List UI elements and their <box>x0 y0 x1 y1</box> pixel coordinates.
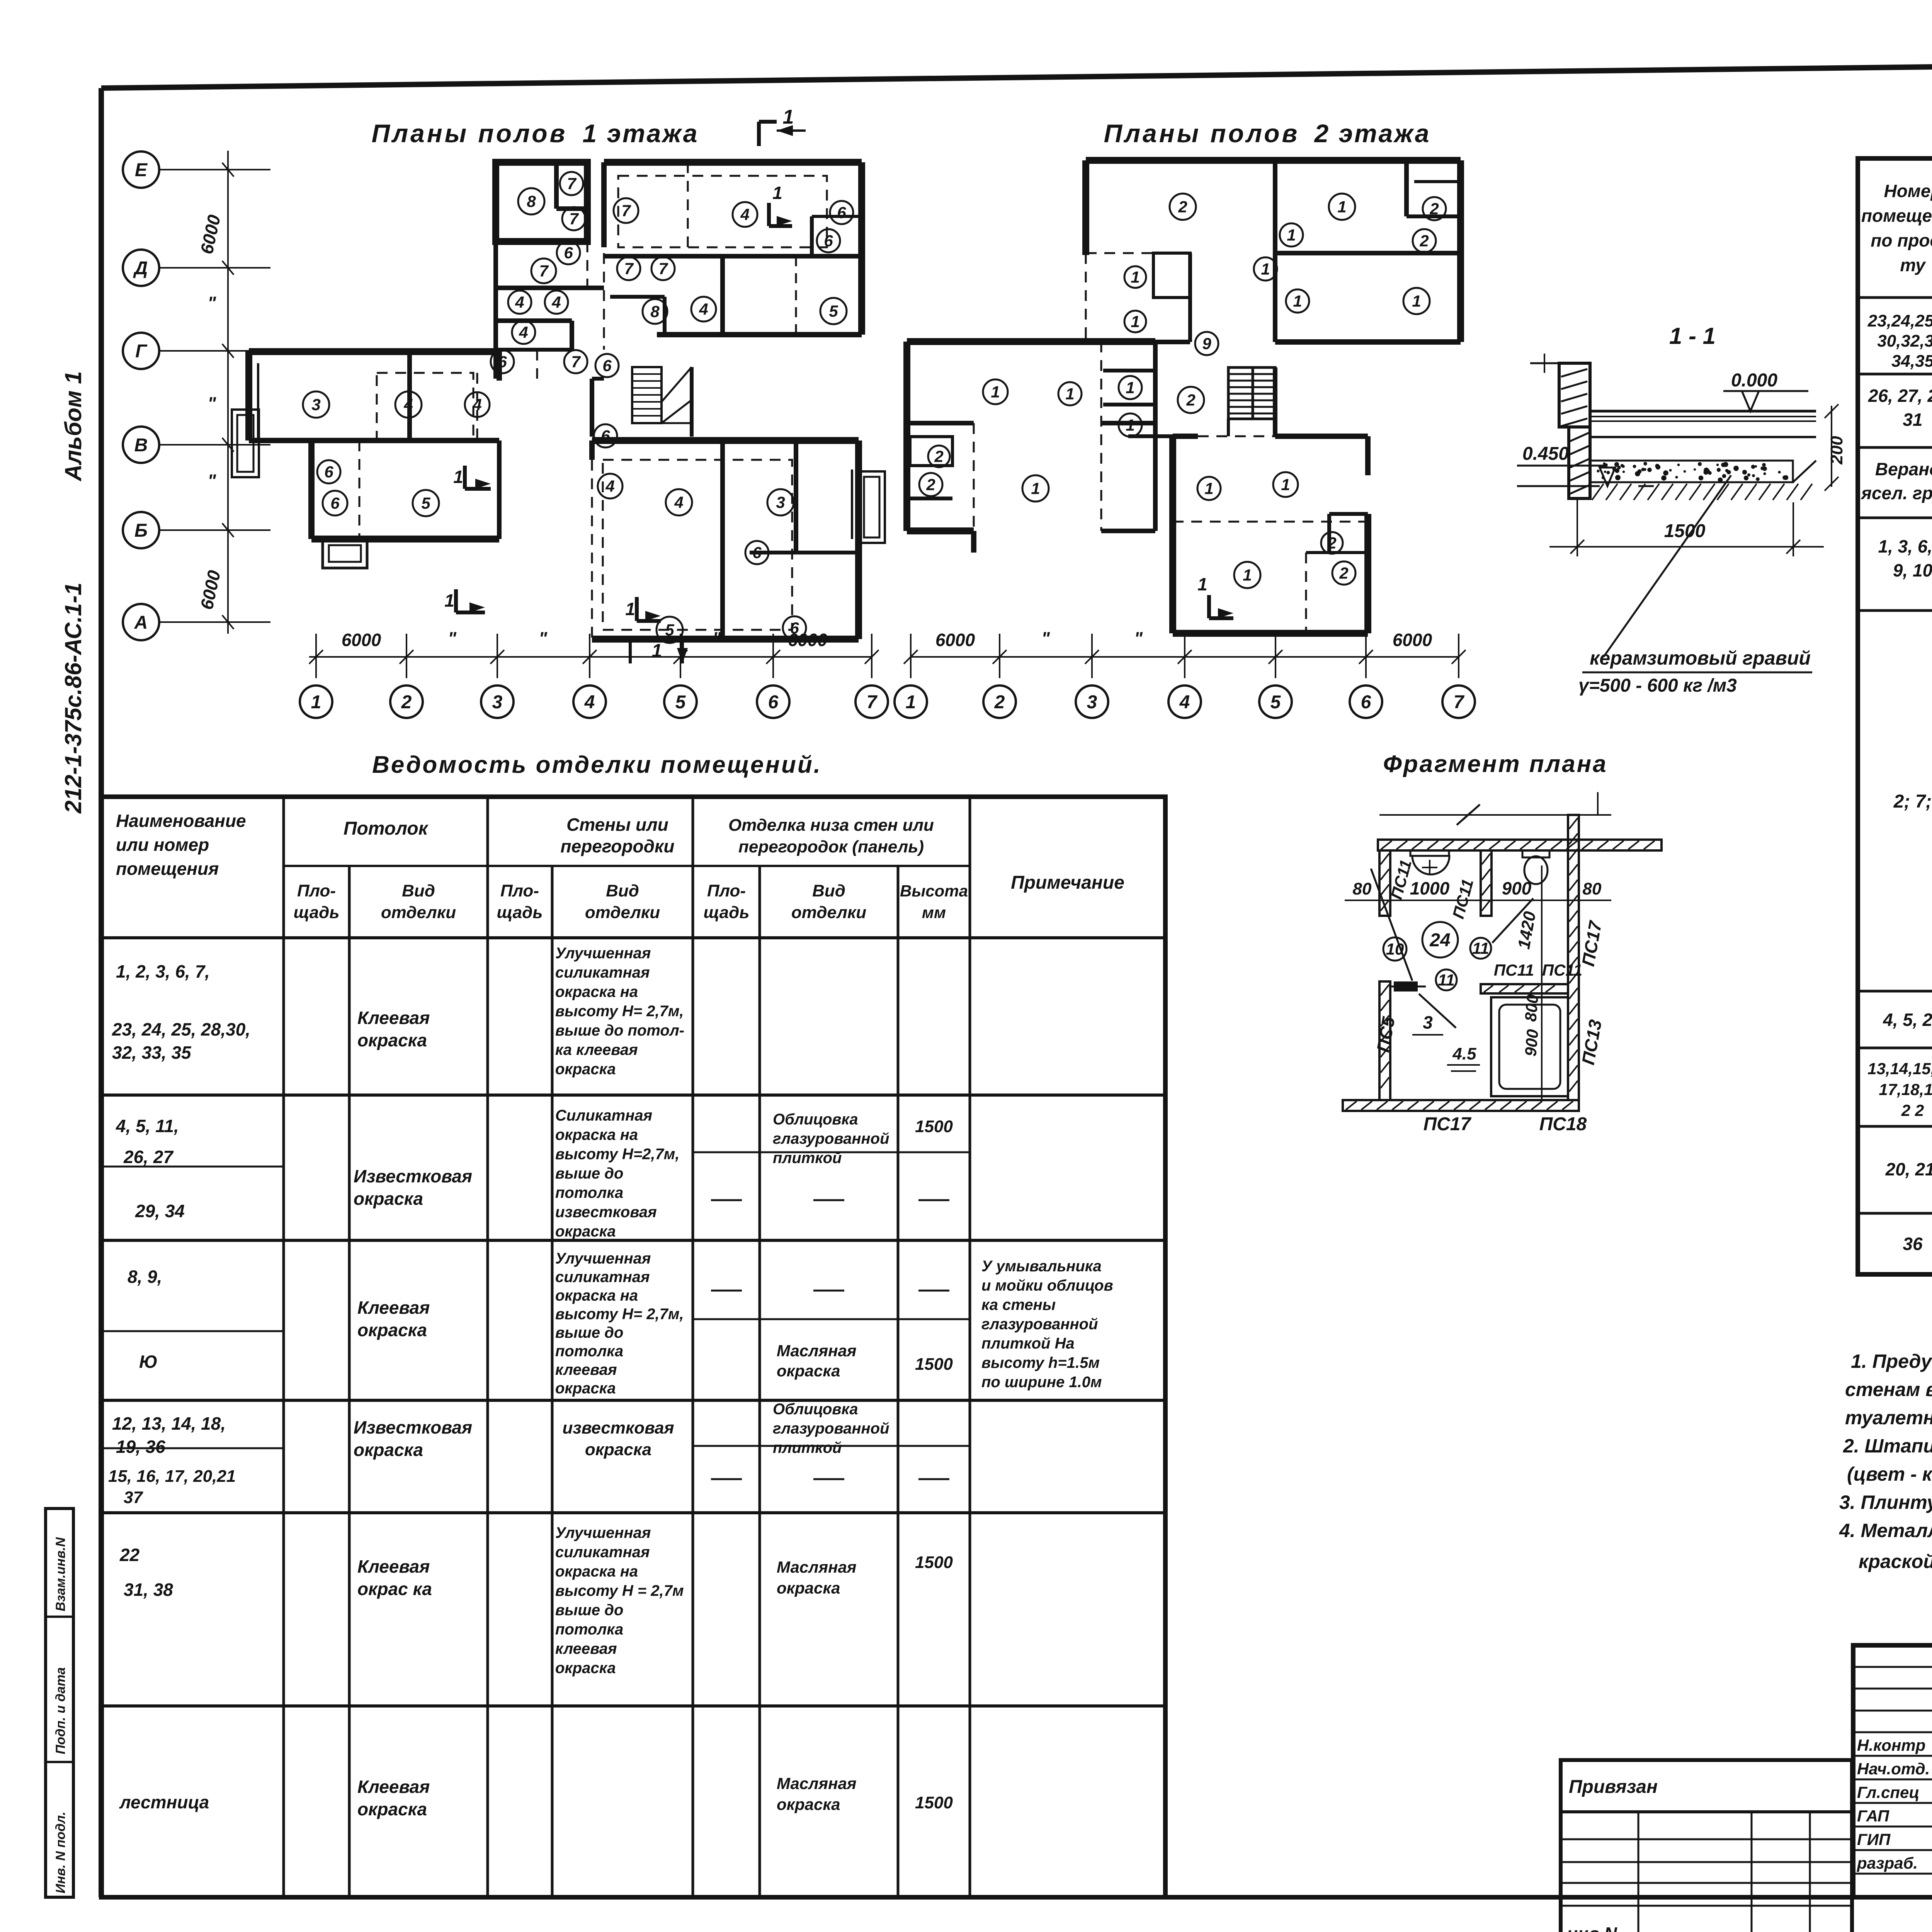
svg-text:У умывальника: У умывальника <box>981 1258 1102 1275</box>
svg-text:900: 900 <box>1521 1029 1542 1057</box>
svg-text:окрас ка: окрас ка <box>357 1579 432 1599</box>
svg-text:3: 3 <box>776 493 785 512</box>
section 1-1 level mark 0.450 <box>1517 444 1654 486</box>
svg-text:3. Плинтусы окрасить масляно: 3. Плинтусы окрасить масляной краской в … <box>1839 1492 1932 1513</box>
svg-text:ПС17: ПС17 <box>1423 1114 1472 1134</box>
svg-text:7: 7 <box>569 210 579 228</box>
svg-text:1000: 1000 <box>1410 878 1450 898</box>
svg-text:": " <box>207 471 216 491</box>
svg-text:Подп. и дата: Подп. и дата <box>53 1667 68 1754</box>
svg-text:6000: 6000 <box>196 568 224 611</box>
svg-text:Потолок: Потолок <box>344 818 429 839</box>
svg-text:2: 2 <box>401 692 412 713</box>
svg-text:перегородки: перегородки <box>561 836 675 856</box>
svg-text:плиткой: плиткой <box>773 1439 842 1456</box>
svg-text:6000: 6000 <box>935 630 975 650</box>
floor plan 1: connector block C walls <box>496 241 604 379</box>
svg-text:8: 8 <box>650 303 660 321</box>
svg-text:1: 1 <box>1287 226 1296 244</box>
svg-text:26, 27, 2 8,: 26, 27, 2 8, <box>1868 386 1932 406</box>
svg-text:5: 5 <box>1270 692 1281 713</box>
svg-text:4: 4 <box>674 493 683 512</box>
axis row Д <box>123 250 270 286</box>
svg-text:23,24,25,29: 23,24,25,29 <box>1867 311 1932 330</box>
svg-text:6000: 6000 <box>1393 630 1432 650</box>
svg-text:34,35: 34,35 <box>1891 352 1932 371</box>
axis row Е <box>123 151 270 188</box>
svg-text:окраска: окраска <box>354 1189 423 1209</box>
fragment plan top dimension line with break <box>1379 792 1611 825</box>
explication table grid <box>1858 158 1932 1274</box>
svg-text:24: 24 <box>1429 930 1450 951</box>
svg-text:щадь: щадь <box>294 903 340 922</box>
svg-text:4, 5, 22: 4, 5, 22 <box>1883 1010 1932 1030</box>
svg-text:31, 38: 31, 38 <box>124 1580 173 1600</box>
svg-text:ту: ту <box>1900 255 1926 275</box>
svg-text:80: 80 <box>1583 879 1602 898</box>
svg-text:окраска: окраска <box>777 1795 840 1813</box>
svg-text:4: 4 <box>403 396 413 414</box>
svg-text:отделки: отделки <box>381 903 456 922</box>
fragment plan walls hatched <box>1343 815 1662 1111</box>
svg-text:11: 11 <box>1438 971 1455 989</box>
svg-text:помещения: помещения <box>1861 206 1932 226</box>
svg-text:4.5: 4.5 <box>1452 1044 1476 1063</box>
svg-text:0.450: 0.450 <box>1522 444 1569 464</box>
svg-text:(цвет - коричневый): (цвет - коричневый) <box>1847 1463 1932 1485</box>
floor plan 1: wall between stair and wing <box>592 367 692 437</box>
svg-text:2: 2 <box>1186 391 1195 409</box>
left margin vertical doc number 212-1-375c.86-AC.1-1 Album 1 <box>60 371 86 814</box>
floor plan 2: left wing walls <box>907 342 1155 553</box>
svg-text:Веранда: Веранда <box>1875 459 1932 479</box>
svg-text:окраска на: окраска на <box>555 1563 638 1580</box>
svg-text:высоту h=1.5м: высоту h=1.5м <box>981 1354 1100 1371</box>
svg-text:4: 4 <box>519 323 528 342</box>
svg-text:2 этажа: 2 этажа <box>1314 119 1431 148</box>
svg-text:2 2: 2 2 <box>1901 1101 1924 1119</box>
svg-text:А: А <box>134 612 148 633</box>
svg-text:окраска на: окраска на <box>555 1287 638 1304</box>
svg-text:Г: Г <box>135 341 148 362</box>
svg-text:плиткой: плиткой <box>773 1150 842 1167</box>
svg-text:4, 5, 11,: 4, 5, 11, <box>116 1116 179 1136</box>
svg-text:ПС18: ПС18 <box>1539 1114 1587 1134</box>
svg-text:6: 6 <box>752 544 762 562</box>
svg-text:плиткой На: плиткой На <box>981 1335 1075 1352</box>
fragment plan door leaf <box>1390 981 1426 992</box>
svg-text:": " <box>713 628 721 648</box>
floor plan 2 section mark 1 <box>1197 574 1233 618</box>
svg-text:γ=500 - 600 кг /м3: γ=500 - 600 кг /м3 <box>1578 675 1737 696</box>
explication table header texts <box>1861 181 1932 287</box>
svg-text:отделки: отделки <box>791 903 866 922</box>
svg-text:6: 6 <box>768 692 779 713</box>
svg-text:6: 6 <box>330 494 340 512</box>
svg-text:выше до: выше до <box>555 1324 623 1341</box>
svg-text:1 этажа: 1 этажа <box>583 119 699 148</box>
svg-text:ка клеевая: ка клеевая <box>555 1041 638 1058</box>
svg-text:инв.N.: инв.N. <box>1567 1923 1622 1932</box>
svg-text:1: 1 <box>1281 476 1290 494</box>
section 1-1 floor slab lines <box>1590 411 1816 437</box>
svg-text:выше до потол-: выше до потол- <box>555 1022 684 1039</box>
svg-text:высоту Н= 2,7м,: высоту Н= 2,7м, <box>555 1306 684 1323</box>
floor plan 1 room number circles <box>303 172 853 643</box>
svg-text:стенам в спальных , приемных: стенам в спальных , приемных , раздеваль… <box>1845 1379 1932 1400</box>
floor plan 1: staircase <box>632 367 692 423</box>
svg-text:1: 1 <box>1126 379 1134 397</box>
svg-text:6: 6 <box>498 353 507 371</box>
svg-text:2: 2 <box>926 476 935 494</box>
svg-text:5: 5 <box>675 692 686 713</box>
svg-text:": " <box>1041 628 1050 648</box>
svg-text:окраска: окраска <box>354 1440 423 1460</box>
svg-text:3: 3 <box>1423 1012 1433 1032</box>
section 1-1 gravel layer <box>1590 461 1793 482</box>
svg-text:1: 1 <box>783 106 794 128</box>
svg-text:1500: 1500 <box>915 1117 953 1136</box>
floor plan 2: bottom block walls <box>1173 436 1368 633</box>
svg-text:6: 6 <box>824 232 833 250</box>
svg-text:2: 2 <box>1339 564 1348 582</box>
svg-text:Облицовка: Облицовка <box>773 1401 858 1418</box>
svg-text:Б: Б <box>134 520 148 541</box>
svg-text:высоту Н= 2,7м,: высоту Н= 2,7м, <box>555 1003 684 1020</box>
floor plan 2 axis dimension line and circles 1-7 <box>895 628 1475 718</box>
svg-text:2: 2 <box>1327 534 1336 552</box>
floor plan 2: small centre rooms <box>1103 371 1173 436</box>
svg-text:Вид: Вид <box>812 881 845 900</box>
svg-text:известковая: известковая <box>563 1418 674 1437</box>
svg-text:6000: 6000 <box>788 630 828 650</box>
svg-text:керамзитовый гравий: керамзитовый гравий <box>1590 647 1811 669</box>
svg-text:1: 1 <box>1031 480 1040 498</box>
svg-text:1: 1 <box>1197 574 1207 594</box>
svg-text:Высота: Высота <box>900 882 968 900</box>
svg-text:туалетных, буфетных, кухни, с: туалетных, буфетных, кухни, стиральной и… <box>1845 1407 1932 1429</box>
svg-text:или номер: или номер <box>116 835 209 855</box>
svg-text:6: 6 <box>602 357 612 375</box>
svg-text:2; 7;: 2; 7; <box>1893 791 1932 812</box>
title block left signature grid <box>1853 1645 1932 1897</box>
section 1-1 zero level mark 0.000 <box>1723 370 1808 411</box>
section mark 1 top <box>759 106 806 146</box>
floor plan 2 room number circles <box>919 194 1446 588</box>
svg-text:7: 7 <box>867 692 878 713</box>
svg-text:1500: 1500 <box>915 1355 953 1374</box>
svg-text:23, 24, 25, 28,30,: 23, 24, 25, 28,30, <box>112 1019 250 1039</box>
svg-text:ка стены: ка стены <box>981 1296 1056 1313</box>
svg-text:Улучшенная: Улучшенная <box>555 945 651 962</box>
svg-text:Известковая: Известковая <box>354 1417 472 1437</box>
svg-text:6: 6 <box>324 463 333 481</box>
fragment plan dimension texts <box>1345 858 1611 1134</box>
svg-text:Силикатная: Силикатная <box>555 1107 652 1124</box>
svg-text:4: 4 <box>472 396 481 414</box>
svg-text:7: 7 <box>571 353 581 371</box>
section 1-1 dim 1500 <box>1549 498 1824 556</box>
svg-text:Клеевая: Клеевая <box>357 1556 430 1577</box>
svg-text:200: 200 <box>1827 436 1846 465</box>
fragment plan sink fixture <box>1410 850 1449 875</box>
svg-text:помещения: помещения <box>116 859 219 879</box>
svg-text:": " <box>448 628 457 648</box>
svg-text:5: 5 <box>829 302 838 320</box>
svg-text:30,32,33,: 30,32,33, <box>1877 332 1932 350</box>
floor plan 2: staircase <box>1228 367 1275 436</box>
svg-text:разраб.: разраб. <box>1857 1854 1918 1872</box>
svg-text:отделки: отделки <box>585 903 660 922</box>
axis dim labels 6000 left <box>196 213 224 611</box>
svg-text:13,14,15,16,: 13,14,15,16, <box>1867 1060 1932 1078</box>
svg-text:17,18,19,: 17,18,19, <box>1879 1080 1932 1099</box>
svg-text:Взам.инв.N: Взам.инв.N <box>53 1537 68 1611</box>
svg-text:Отделка низа стен или: Отделка низа стен или <box>728 816 934 835</box>
svg-text:Инв. N подл.: Инв. N подл. <box>53 1811 68 1893</box>
svg-text:Вид: Вид <box>402 881 435 900</box>
svg-text:ПС11: ПС11 <box>1542 961 1582 979</box>
notes text lines <box>1839 1350 1932 1572</box>
svg-text:1: 1 <box>1131 313 1139 331</box>
svg-text:потолка: потолка <box>555 1343 623 1360</box>
svg-text:окраска: окраска <box>777 1362 840 1380</box>
svg-text:Клеевая: Клеевая <box>357 1298 430 1318</box>
svg-text:Клеевая: Клеевая <box>357 1777 430 1797</box>
svg-text:": " <box>1316 628 1325 648</box>
svg-text:1: 1 <box>1126 416 1134 434</box>
svg-text:15, 16, 17, 20,21: 15, 16, 17, 20,21 <box>108 1467 236 1486</box>
svg-text:4: 4 <box>515 293 524 311</box>
svg-text:3: 3 <box>492 692 503 713</box>
svg-text:1: 1 <box>991 383 1000 401</box>
svg-text:0.000: 0.000 <box>1731 370 1777 391</box>
svg-text:окраска: окраска <box>357 1030 427 1050</box>
svg-text:силикатная: силикатная <box>555 1544 650 1561</box>
svg-text:окраска: окраска <box>555 1061 616 1078</box>
svg-text:1: 1 <box>453 467 463 487</box>
floor plan 1: block A top-left walls <box>496 162 587 241</box>
section 1-1 ground hatch <box>1592 461 1816 500</box>
svg-text:1: 1 <box>625 599 635 619</box>
svg-text:перегородок (панель): перегородок (панель) <box>738 837 924 856</box>
svg-text:7: 7 <box>539 262 549 280</box>
privyazan box <box>1561 1760 1852 1932</box>
svg-text:Пло-: Пло- <box>500 881 539 900</box>
axis row В <box>123 427 270 463</box>
svg-text:ГАП: ГАП <box>1857 1807 1889 1825</box>
fragment plan shower tray <box>1491 997 1568 1096</box>
svg-text:31: 31 <box>1903 410 1922 430</box>
svg-text:6: 6 <box>601 427 610 445</box>
svg-text:Примечание: Примечание <box>1011 872 1124 893</box>
svg-text:1: 1 <box>1293 292 1302 310</box>
svg-text:4: 4 <box>605 477 614 495</box>
svg-text:ПС11: ПС11 <box>1494 961 1534 979</box>
svg-text:900: 900 <box>1502 878 1532 898</box>
svg-text:окраска: окраска <box>357 1799 427 1819</box>
svg-text:Масляная: Масляная <box>777 1342 857 1360</box>
floor plan 1: block B top-right walls <box>604 162 862 335</box>
svg-text:1: 1 <box>772 183 782 203</box>
svg-text:7: 7 <box>621 202 631 220</box>
svg-text:известковая: известковая <box>555 1204 657 1221</box>
svg-text:1. Предусмотреть утепление п: 1. Предусмотреть утепление пола в зоне п… <box>1851 1350 1932 1372</box>
svg-text:37: 37 <box>124 1488 143 1507</box>
fragment plan room circles <box>1383 922 1491 990</box>
svg-text:32, 33, 35: 32, 33, 35 <box>112 1043 192 1063</box>
svg-text:клеевая: клеевая <box>555 1361 617 1378</box>
svg-text:мм: мм <box>922 903 946 922</box>
svg-text:7: 7 <box>658 260 668 278</box>
svg-text:клеевая: клеевая <box>555 1640 617 1657</box>
svg-text:1500: 1500 <box>915 1553 953 1572</box>
svg-text:2: 2 <box>994 692 1005 713</box>
svg-text:1: 1 <box>1337 198 1346 216</box>
svg-text:ПС11: ПС11 <box>1449 877 1477 921</box>
svg-text:7: 7 <box>624 260 634 278</box>
axis row А <box>123 604 270 640</box>
axis row Б <box>123 512 270 548</box>
svg-text:4: 4 <box>740 206 749 224</box>
floor plan 2: top block walls <box>1086 160 1461 342</box>
svg-text:3: 3 <box>311 396 320 414</box>
svg-text:1, 2, 3, 6, 7,: 1, 2, 3, 6, 7, <box>116 961 210 981</box>
svg-text:": " <box>207 293 216 313</box>
svg-text:высоту Н = 2,7м: высоту Н = 2,7м <box>555 1582 684 1599</box>
svg-text:1 - 1: 1 - 1 <box>1669 323 1716 349</box>
svg-text:6: 6 <box>1361 692 1371 713</box>
svg-text:по ширине 1.0м: по ширине 1.0м <box>981 1374 1102 1391</box>
svg-text:1: 1 <box>1243 566 1252 584</box>
svg-text:2: 2 <box>1429 200 1439 218</box>
svg-text:Номер: Номер <box>1884 181 1932 201</box>
svg-text:и мойки облицов: и мойки облицов <box>981 1277 1113 1294</box>
svg-text:8: 8 <box>527 192 536 211</box>
floor plan 1: left wing block D walls <box>232 352 499 568</box>
svg-text:Ведомость отделки помещений.: Ведомость отделки помещений. <box>372 752 822 778</box>
svg-text:потолка: потолка <box>555 1184 623 1201</box>
svg-text:Н.контр: Н.контр <box>1857 1736 1925 1754</box>
svg-text:глазурованной: глазурованной <box>773 1420 889 1437</box>
svg-text:Пло-: Пло- <box>707 881 746 900</box>
svg-text:1: 1 <box>444 590 454 611</box>
svg-text:Е: Е <box>135 160 148 180</box>
svg-text:Улучшенная: Улучшенная <box>555 1524 651 1541</box>
svg-text:11: 11 <box>1472 939 1489 957</box>
svg-text:1: 1 <box>1412 292 1421 310</box>
svg-text:7: 7 <box>1454 692 1465 713</box>
svg-text:щадь: щадь <box>497 903 543 922</box>
svg-text:ясел. групп: ясел. групп <box>1860 483 1932 503</box>
svg-text:окраска: окраска <box>585 1440 651 1459</box>
svg-text:окраска: окраска <box>357 1320 427 1340</box>
svg-text:1: 1 <box>1065 385 1074 403</box>
svg-text:6: 6 <box>564 244 573 262</box>
svg-text:2: 2 <box>1178 198 1187 216</box>
svg-text:": " <box>539 628 548 648</box>
svg-text:": " <box>1226 628 1235 648</box>
svg-text:потолка: потолка <box>555 1621 623 1638</box>
vertical axis line plan1 <box>227 151 229 634</box>
svg-text:1: 1 <box>1204 480 1213 498</box>
svg-text:Наименование: Наименование <box>116 811 246 831</box>
svg-text:7: 7 <box>567 175 577 193</box>
floor plan 1: bottom-right wing block E walls <box>592 440 885 639</box>
svg-text:2: 2 <box>1419 232 1429 250</box>
vedomost data rows <box>108 945 1113 1819</box>
svg-text:ГИП: ГИП <box>1857 1830 1891 1849</box>
svg-text:окраска: окраска <box>555 1660 616 1677</box>
svg-text:10: 10 <box>1386 940 1404 958</box>
svg-text:800: 800 <box>1521 994 1542 1022</box>
svg-text:лестница: лестница <box>119 1792 209 1812</box>
svg-text:глазурованной: глазурованной <box>981 1316 1098 1333</box>
svg-text:1: 1 <box>1131 268 1139 286</box>
svg-text:26, 27: 26, 27 <box>123 1147 174 1167</box>
svg-text:окраска: окраска <box>555 1380 616 1397</box>
svg-text:окраска на: окраска на <box>555 1126 638 1143</box>
svg-text:4: 4 <box>1179 692 1190 713</box>
svg-text:36: 36 <box>1903 1234 1923 1254</box>
svg-text:4: 4 <box>699 300 708 318</box>
svg-text:Клеевая: Клеевая <box>357 1008 430 1028</box>
svg-text:Планы полов: Планы полов <box>372 119 568 148</box>
svg-text:3: 3 <box>1087 692 1097 713</box>
svg-text:краской за 2 раза (цвет - че: краской за 2 раза (цвет - черный ). <box>1859 1551 1932 1572</box>
svg-text:Вид: Вид <box>606 881 639 900</box>
fragment plan toilet fixture <box>1522 850 1549 884</box>
svg-text:8, 9,: 8, 9, <box>128 1267 162 1287</box>
svg-text:1500: 1500 <box>1664 521 1706 541</box>
svg-text:высоту Н=2,7м,: высоту Н=2,7м, <box>555 1146 679 1163</box>
svg-text:1500: 1500 <box>915 1793 953 1812</box>
svg-text:9: 9 <box>1202 335 1211 353</box>
svg-text:по проек-: по проек- <box>1871 230 1932 250</box>
svg-text:силикатная: силикатная <box>555 964 650 981</box>
svg-text:ПС13: ПС13 <box>1578 1018 1605 1066</box>
svg-text:6000: 6000 <box>342 630 381 650</box>
svg-text:Стены или: Стены или <box>566 815 668 835</box>
svg-text:Ю: Ю <box>139 1352 158 1372</box>
title block outer <box>1853 1645 1932 1897</box>
floor plan 1 section marks <box>444 183 792 621</box>
svg-text:6000: 6000 <box>196 213 224 256</box>
floor plan 1 column axis dimension line and circles 1-7 <box>300 628 888 718</box>
svg-text:29, 34: 29, 34 <box>135 1201 185 1221</box>
svg-text:глазурованной: глазурованной <box>773 1130 889 1147</box>
axis row Г <box>123 333 270 369</box>
svg-text:Гл.спец: Гл.спец <box>1857 1783 1919 1801</box>
svg-text:Нач.отд.: Нач.отд. <box>1857 1760 1930 1778</box>
svg-text:2: 2 <box>934 447 943 466</box>
svg-text:": " <box>1134 628 1143 648</box>
svg-text:Планы полов: Планы полов <box>1104 119 1300 148</box>
svg-text:1: 1 <box>652 641 662 661</box>
svg-text:4. Металлические ограждения: 4. Металлические ограждения лестницы окр… <box>1839 1520 1932 1541</box>
fragment plan leader lines <box>1371 866 1542 1101</box>
svg-text:окраска на: окраска на <box>555 983 638 1000</box>
svg-text:1: 1 <box>311 692 321 713</box>
svg-text:Известковая: Известковая <box>354 1166 472 1186</box>
svg-text:щадь: щадь <box>704 903 750 922</box>
svg-text:19, 36: 19, 36 <box>116 1437 165 1457</box>
left margin stamp boxes (vzam.inv, podp i data, inv N podl) <box>46 1509 73 1897</box>
svg-text:силикатная: силикатная <box>555 1269 650 1286</box>
svg-text:Привязан: Привязан <box>1569 1777 1658 1797</box>
svg-text:Фрагмент плана: Фрагмент плана <box>1383 751 1607 777</box>
svg-text:1: 1 <box>1261 260 1270 278</box>
